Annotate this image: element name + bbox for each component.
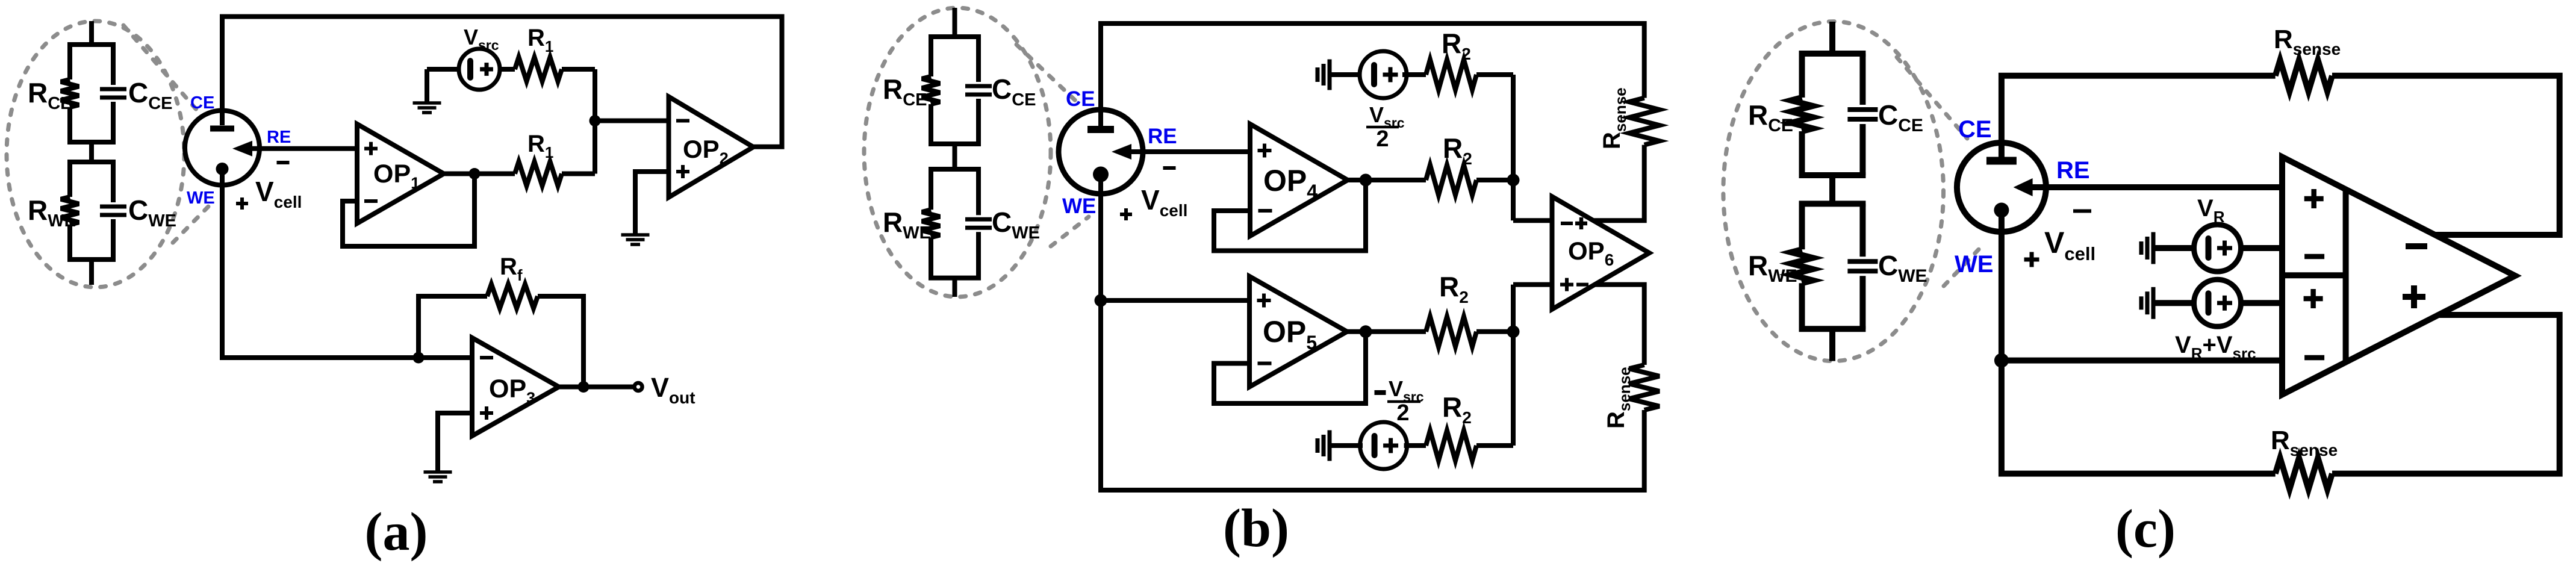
svg-text:WE: WE bbox=[187, 188, 215, 208]
svg-text:2: 2 bbox=[1376, 126, 1389, 152]
svg-text:WE: WE bbox=[1062, 194, 1096, 218]
svg-text:CE: CE bbox=[1958, 116, 1992, 143]
svg-text:WE: WE bbox=[1955, 251, 1993, 278]
svg-text:(b): (b) bbox=[1223, 499, 1289, 558]
svg-text:RE: RE bbox=[1148, 125, 1177, 148]
svg-text:RE: RE bbox=[2056, 157, 2090, 184]
svg-text:CE: CE bbox=[1066, 87, 1095, 111]
svg-text:CE: CE bbox=[190, 93, 214, 113]
svg-text:RE: RE bbox=[267, 128, 291, 147]
svg-text:(a): (a) bbox=[365, 502, 428, 562]
svg-text:2: 2 bbox=[1396, 400, 1409, 426]
svg-text:(c): (c) bbox=[2115, 499, 2176, 559]
